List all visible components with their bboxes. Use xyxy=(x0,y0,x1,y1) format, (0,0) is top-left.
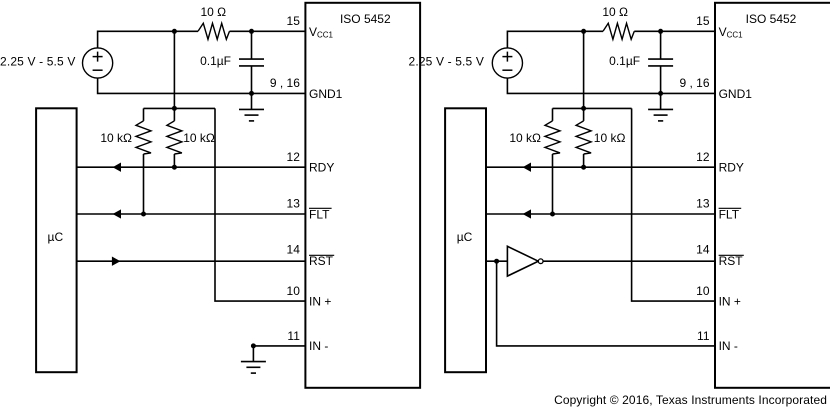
wire RDY (right) xyxy=(486,166,715,168)
pin number 12 (right) xyxy=(696,150,710,164)
svg-text:IN -: IN - xyxy=(719,339,738,353)
resistor R1c 10 kΩ pull-up RDY (left) xyxy=(167,108,182,167)
svg-text:RDY: RDY xyxy=(719,161,744,175)
pin number 11 (right) xyxy=(697,329,710,343)
svg-text:IN +: IN + xyxy=(719,294,741,308)
svg-text:10 kΩ: 10 kΩ xyxy=(594,131,626,145)
svg-text:GND1: GND1 xyxy=(719,87,753,101)
label 10 Ω (right) xyxy=(602,5,628,19)
wire IN- from RST node (right) xyxy=(497,261,715,346)
arrow FLT to µC (left) xyxy=(113,209,121,218)
svg-text:V: V xyxy=(719,25,727,39)
pin name IN - (right) xyxy=(719,339,738,353)
pin name RST with overline (right) xyxy=(719,254,744,268)
capacitor C2 0.1µF (right) xyxy=(648,31,673,93)
svg-text:10 kΩ: 10 kΩ xyxy=(509,131,541,145)
resistor R2c 10 kΩ pull-up RDY (right) xyxy=(576,108,591,167)
pin number 11 (left) xyxy=(287,329,300,343)
svg-text:CC1: CC1 xyxy=(317,30,334,39)
inverter U3 on RST (right) xyxy=(507,246,543,276)
resistor R2a 10 Ω (right) xyxy=(603,23,634,39)
arrow FLT to µC (right) xyxy=(523,209,531,218)
svg-text:V: V xyxy=(309,25,317,39)
svg-text:10 Ω: 10 Ω xyxy=(602,5,628,19)
wire GND from source to GND1 pin (left) xyxy=(98,78,306,93)
wire FLT (left) xyxy=(77,213,306,215)
wire RDY (left) xyxy=(77,166,306,168)
node RDY/pull-up junction (left) xyxy=(172,165,177,170)
label supply voltage (right) xyxy=(409,55,484,69)
microcontroller µC block (right) xyxy=(445,108,486,372)
pin name RDY (left) xyxy=(309,161,334,175)
pin number 12 (left) xyxy=(287,150,301,164)
svg-text:IN -: IN - xyxy=(309,339,328,353)
pin number 15 (left) xyxy=(287,14,301,28)
svg-text:RST: RST xyxy=(309,254,334,268)
voltage source V2 2.25V-5.5V (right) xyxy=(492,48,522,78)
capacitor C1 0.1µF (left) xyxy=(239,31,264,93)
wire GND from source to GND1 pin (right) xyxy=(507,78,715,93)
node VCC/cap junction (left) xyxy=(249,29,254,34)
svg-text:IN +: IN + xyxy=(309,294,331,308)
svg-text:13: 13 xyxy=(287,196,301,210)
pin name RST with overline (left) xyxy=(309,254,334,268)
pin number 13 (left) xyxy=(287,196,301,210)
label 10 kΩ (R1b) xyxy=(100,131,132,145)
svg-text:GND1: GND1 xyxy=(309,87,343,101)
pin number 15 (right) xyxy=(696,14,710,28)
wire pull-up feed (right) xyxy=(583,31,585,108)
svg-text:15: 15 xyxy=(696,14,710,28)
node FLT/pull-up junction (right) xyxy=(550,212,555,217)
label 10 Ω (left) xyxy=(200,5,226,19)
svg-text:9 , 16: 9 , 16 xyxy=(679,76,709,90)
wire FLT (right) xyxy=(486,213,715,215)
pin name GND1 (right) xyxy=(719,87,753,101)
svg-text:15: 15 xyxy=(287,14,301,28)
IC ISO 5452 U1 (left) xyxy=(305,3,420,388)
svg-text:10 kΩ: 10 kΩ xyxy=(100,131,132,145)
svg-text:FLT: FLT xyxy=(309,207,330,221)
resistor R1b 10 kΩ pull-up FLT (left) xyxy=(136,108,151,214)
resistor R1a 10 Ω (left) xyxy=(198,23,230,39)
node IN- ground tap (left) xyxy=(251,343,256,348)
wire IN+ from bus (right) xyxy=(632,108,715,301)
pin number 14 (left) xyxy=(287,242,301,256)
pin number 14 (right) xyxy=(696,242,710,256)
pin number 9, 16 (left) xyxy=(270,76,300,90)
node bus junction (left) xyxy=(172,106,177,111)
pin number 10 (left) xyxy=(287,284,301,298)
pin name RDY (right) xyxy=(719,161,744,175)
wire R to VCC1 pin (right) xyxy=(634,30,715,32)
label 10 kΩ (R1c) xyxy=(183,131,215,145)
node RST/IN- junction (right) xyxy=(494,259,499,264)
svg-text:ISO 5452: ISO 5452 xyxy=(746,12,797,26)
node VCC/pull-up junction (left) xyxy=(172,29,177,34)
svg-text:11: 11 xyxy=(287,329,300,343)
svg-text:13: 13 xyxy=(696,196,710,210)
voltage source V1 2.25V-5.5V (left) xyxy=(83,48,113,78)
IC ISO 5452 U2 (right) xyxy=(715,3,830,388)
svg-text:2.25 V - 5.5 V: 2.25 V - 5.5 V xyxy=(409,55,484,69)
wire RST (left) xyxy=(77,260,306,262)
wire R to VCC1 pin (left) xyxy=(230,30,306,32)
label supply voltage (left) xyxy=(0,55,75,69)
pin name FLT with overline (right) xyxy=(719,207,742,221)
svg-text:CC1: CC1 xyxy=(727,30,744,39)
svg-text:2.25 V - 5.5 V: 2.25 V - 5.5 V xyxy=(0,55,75,69)
pin name FLT with overline (left) xyxy=(309,207,332,221)
pin name IN + (right) xyxy=(719,294,741,308)
svg-text:0.1µF: 0.1µF xyxy=(609,54,640,68)
pin name GND1 (left) xyxy=(309,87,343,101)
svg-text:ISO 5452: ISO 5452 xyxy=(340,12,391,26)
label ISO 5452 (left) xyxy=(340,12,391,26)
pin name IN - (left) xyxy=(309,339,328,353)
svg-text:9 , 16: 9 , 16 xyxy=(270,76,300,90)
svg-text:RDY: RDY xyxy=(309,161,334,175)
pin number 10 (right) xyxy=(696,284,710,298)
ground symbol IN- (left) xyxy=(241,346,266,373)
wire pull-up bus (right) xyxy=(553,107,632,109)
svg-text:µC: µC xyxy=(457,230,473,244)
label ISO 5452 (right) xyxy=(746,12,797,26)
node VCC/pull-up junction (right) xyxy=(581,29,586,34)
label 10 kΩ (R2c) xyxy=(594,131,626,145)
svg-text:14: 14 xyxy=(287,242,301,256)
wire VCC from source to R (right) xyxy=(507,31,603,48)
svg-text:FLT: FLT xyxy=(719,207,740,221)
wire RST (right) xyxy=(486,260,715,262)
wire VCC from source to R (left) xyxy=(98,31,198,48)
label 10 kΩ (R2b) xyxy=(509,131,541,145)
node bus junction (right) xyxy=(581,106,586,111)
node GND/cap junction (right) xyxy=(658,91,663,96)
svg-text:10 Ω: 10 Ω xyxy=(200,5,226,19)
svg-text:10: 10 xyxy=(287,284,301,298)
pin name VCC1 (left) xyxy=(309,25,334,39)
arrow RST from µC (left) xyxy=(112,257,121,266)
resistor R2b 10 kΩ pull-up FLT (right) xyxy=(545,108,560,214)
pin number 9, 16 (right) xyxy=(679,76,709,90)
copyright notice xyxy=(554,393,827,407)
svg-text:12: 12 xyxy=(696,150,710,164)
svg-text:10 kΩ: 10 kΩ xyxy=(183,131,215,145)
node FLT/pull-up junction (left) xyxy=(141,212,146,217)
svg-text:Copyright © 2016, Texas Instru: Copyright © 2016, Texas Instruments Inco… xyxy=(554,393,827,407)
ground symbol supply (right) xyxy=(648,93,673,121)
pin number 13 (right) xyxy=(696,196,710,210)
pin name VCC1 (right) xyxy=(719,25,744,39)
wire IN+ from bus (left) xyxy=(215,108,305,301)
wire IN- (left) xyxy=(253,345,305,347)
svg-text:11: 11 xyxy=(697,329,710,343)
svg-text:10: 10 xyxy=(696,284,710,298)
svg-text:0.1µF: 0.1µF xyxy=(200,54,231,68)
label 0.1µF (right) xyxy=(609,54,640,68)
ground symbol supply (left) xyxy=(239,93,264,121)
svg-text:12: 12 xyxy=(287,150,301,164)
node RDY/pull-up junction (right) xyxy=(581,165,586,170)
arrow RDY to µC (left) xyxy=(113,163,121,172)
node GND/cap junction (left) xyxy=(249,91,254,96)
arrow RDY to µC (right) xyxy=(523,163,531,172)
pin name IN + (left) xyxy=(309,294,331,308)
node VCC/cap junction (right) xyxy=(658,29,663,34)
svg-text:RST: RST xyxy=(719,254,744,268)
svg-text:14: 14 xyxy=(696,242,710,256)
microcontroller µC block (left) xyxy=(36,108,77,372)
wire pull-up bus (left) xyxy=(144,107,216,109)
wire pull-up feed (left) xyxy=(173,31,175,108)
svg-text:µC: µC xyxy=(48,230,64,244)
label 0.1µF (left) xyxy=(200,54,231,68)
